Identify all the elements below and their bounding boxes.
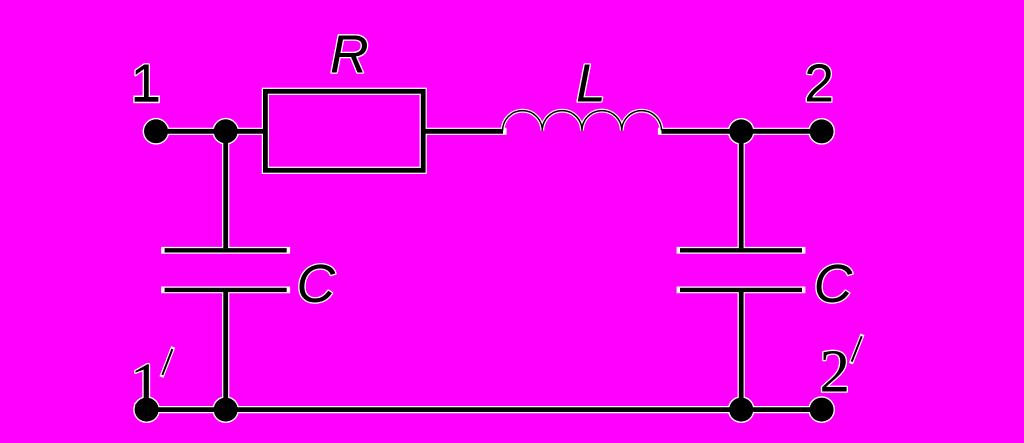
terminal 1' node dot <box>135 398 159 422</box>
node B junction dot <box>729 119 753 143</box>
svg-text:R: R <box>330 25 369 84</box>
bottom-right junction dot <box>729 398 753 422</box>
svg-text:2: 2 <box>820 338 851 405</box>
svg-text:2: 2 <box>804 55 834 114</box>
wire: inductor to node B and terminal 2 <box>662 129 823 134</box>
label: terminal 1 digit foot serif <box>135 97 159 102</box>
wire: resistor to inductor <box>425 129 503 134</box>
capacitor C1 bottom plate <box>165 288 287 292</box>
terminal 1' prime mark <box>162 349 172 375</box>
capacitor C2 top plate <box>680 248 802 252</box>
wire: bottom rail from terminal 1' to terminal 2' <box>147 407 822 412</box>
node A junction dot <box>214 119 238 143</box>
white anti-alias halo underlay <box>130 25 862 423</box>
wire: node A down to capacitor C1 <box>223 131 228 248</box>
svg-text:C: C <box>814 255 853 314</box>
capacitor C1 top plate <box>165 248 287 252</box>
inductor L (4 semicircular turns) <box>503 111 662 131</box>
capacitor C2 bottom plate <box>680 288 802 292</box>
terminal 2' prime mark <box>852 336 862 361</box>
wire: terminal 1 to node A <box>156 129 265 134</box>
resistor R (rectangle body) <box>265 91 423 170</box>
svg-text:L: L <box>576 55 606 114</box>
bottom-left junction dot <box>214 398 238 422</box>
wire: capacitor C2 down to bottom rail <box>739 292 744 410</box>
terminal 1 node dot <box>144 119 168 143</box>
wire: capacitor C1 down to bottom rail <box>223 292 228 410</box>
terminal 2 node dot <box>810 119 834 143</box>
terminal 2' node dot <box>810 398 834 422</box>
wire: node B down to capacitor C2 <box>739 131 744 248</box>
svg-text:C: C <box>297 255 336 314</box>
svg-text:1: 1 <box>131 55 161 114</box>
